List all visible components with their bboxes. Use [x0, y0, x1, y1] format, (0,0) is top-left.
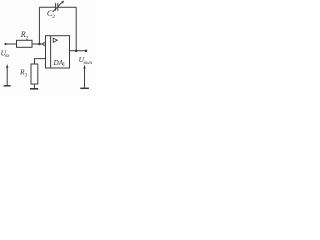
wire feedback left vertical [38, 7, 40, 44]
op-amp U1 amplifier triangle [53, 38, 57, 42]
op-amp U1 side-field divider [50, 36, 52, 68]
resistor R2 [17, 40, 33, 47]
wire input to R2 [6, 43, 17, 45]
capacitor C2 variable arrow [53, 2, 63, 12]
wire R2 to op-amp input [32, 43, 43, 45]
capacitor C2 plate 2 [57, 3, 59, 11]
svg-text:вых: вых [84, 60, 93, 66]
node input terminal [4, 43, 6, 45]
svg-text:вх: вх [5, 54, 10, 59]
svg-text:3: 3 [25, 73, 28, 78]
node junction output [75, 50, 78, 53]
wire capacitor to right corner [58, 6, 76, 8]
capacitor C2 plate 1 [55, 3, 57, 11]
op-amp U1 inverting input circle [43, 43, 46, 46]
output voltage arrow [84, 67, 86, 88]
node output terminal [85, 50, 88, 53]
wire non-inverting input [35, 59, 46, 64]
svg-text:1: 1 [63, 63, 66, 68]
wire R3 to ground [33, 84, 35, 89]
resistor R3 [31, 64, 38, 84]
wire output [70, 50, 87, 52]
node junction feedback/input [38, 43, 41, 46]
wire feedback right vertical [75, 7, 77, 51]
svg-text:2: 2 [52, 14, 55, 20]
op-amp U1 body [46, 36, 70, 68]
ground output side [80, 87, 89, 89]
wire feedback top horizontal [39, 6, 55, 8]
input voltage arrow [6, 67, 8, 86]
svg-text:2: 2 [26, 36, 29, 42]
ground input side [4, 85, 11, 87]
ground under R3 [30, 88, 38, 90]
